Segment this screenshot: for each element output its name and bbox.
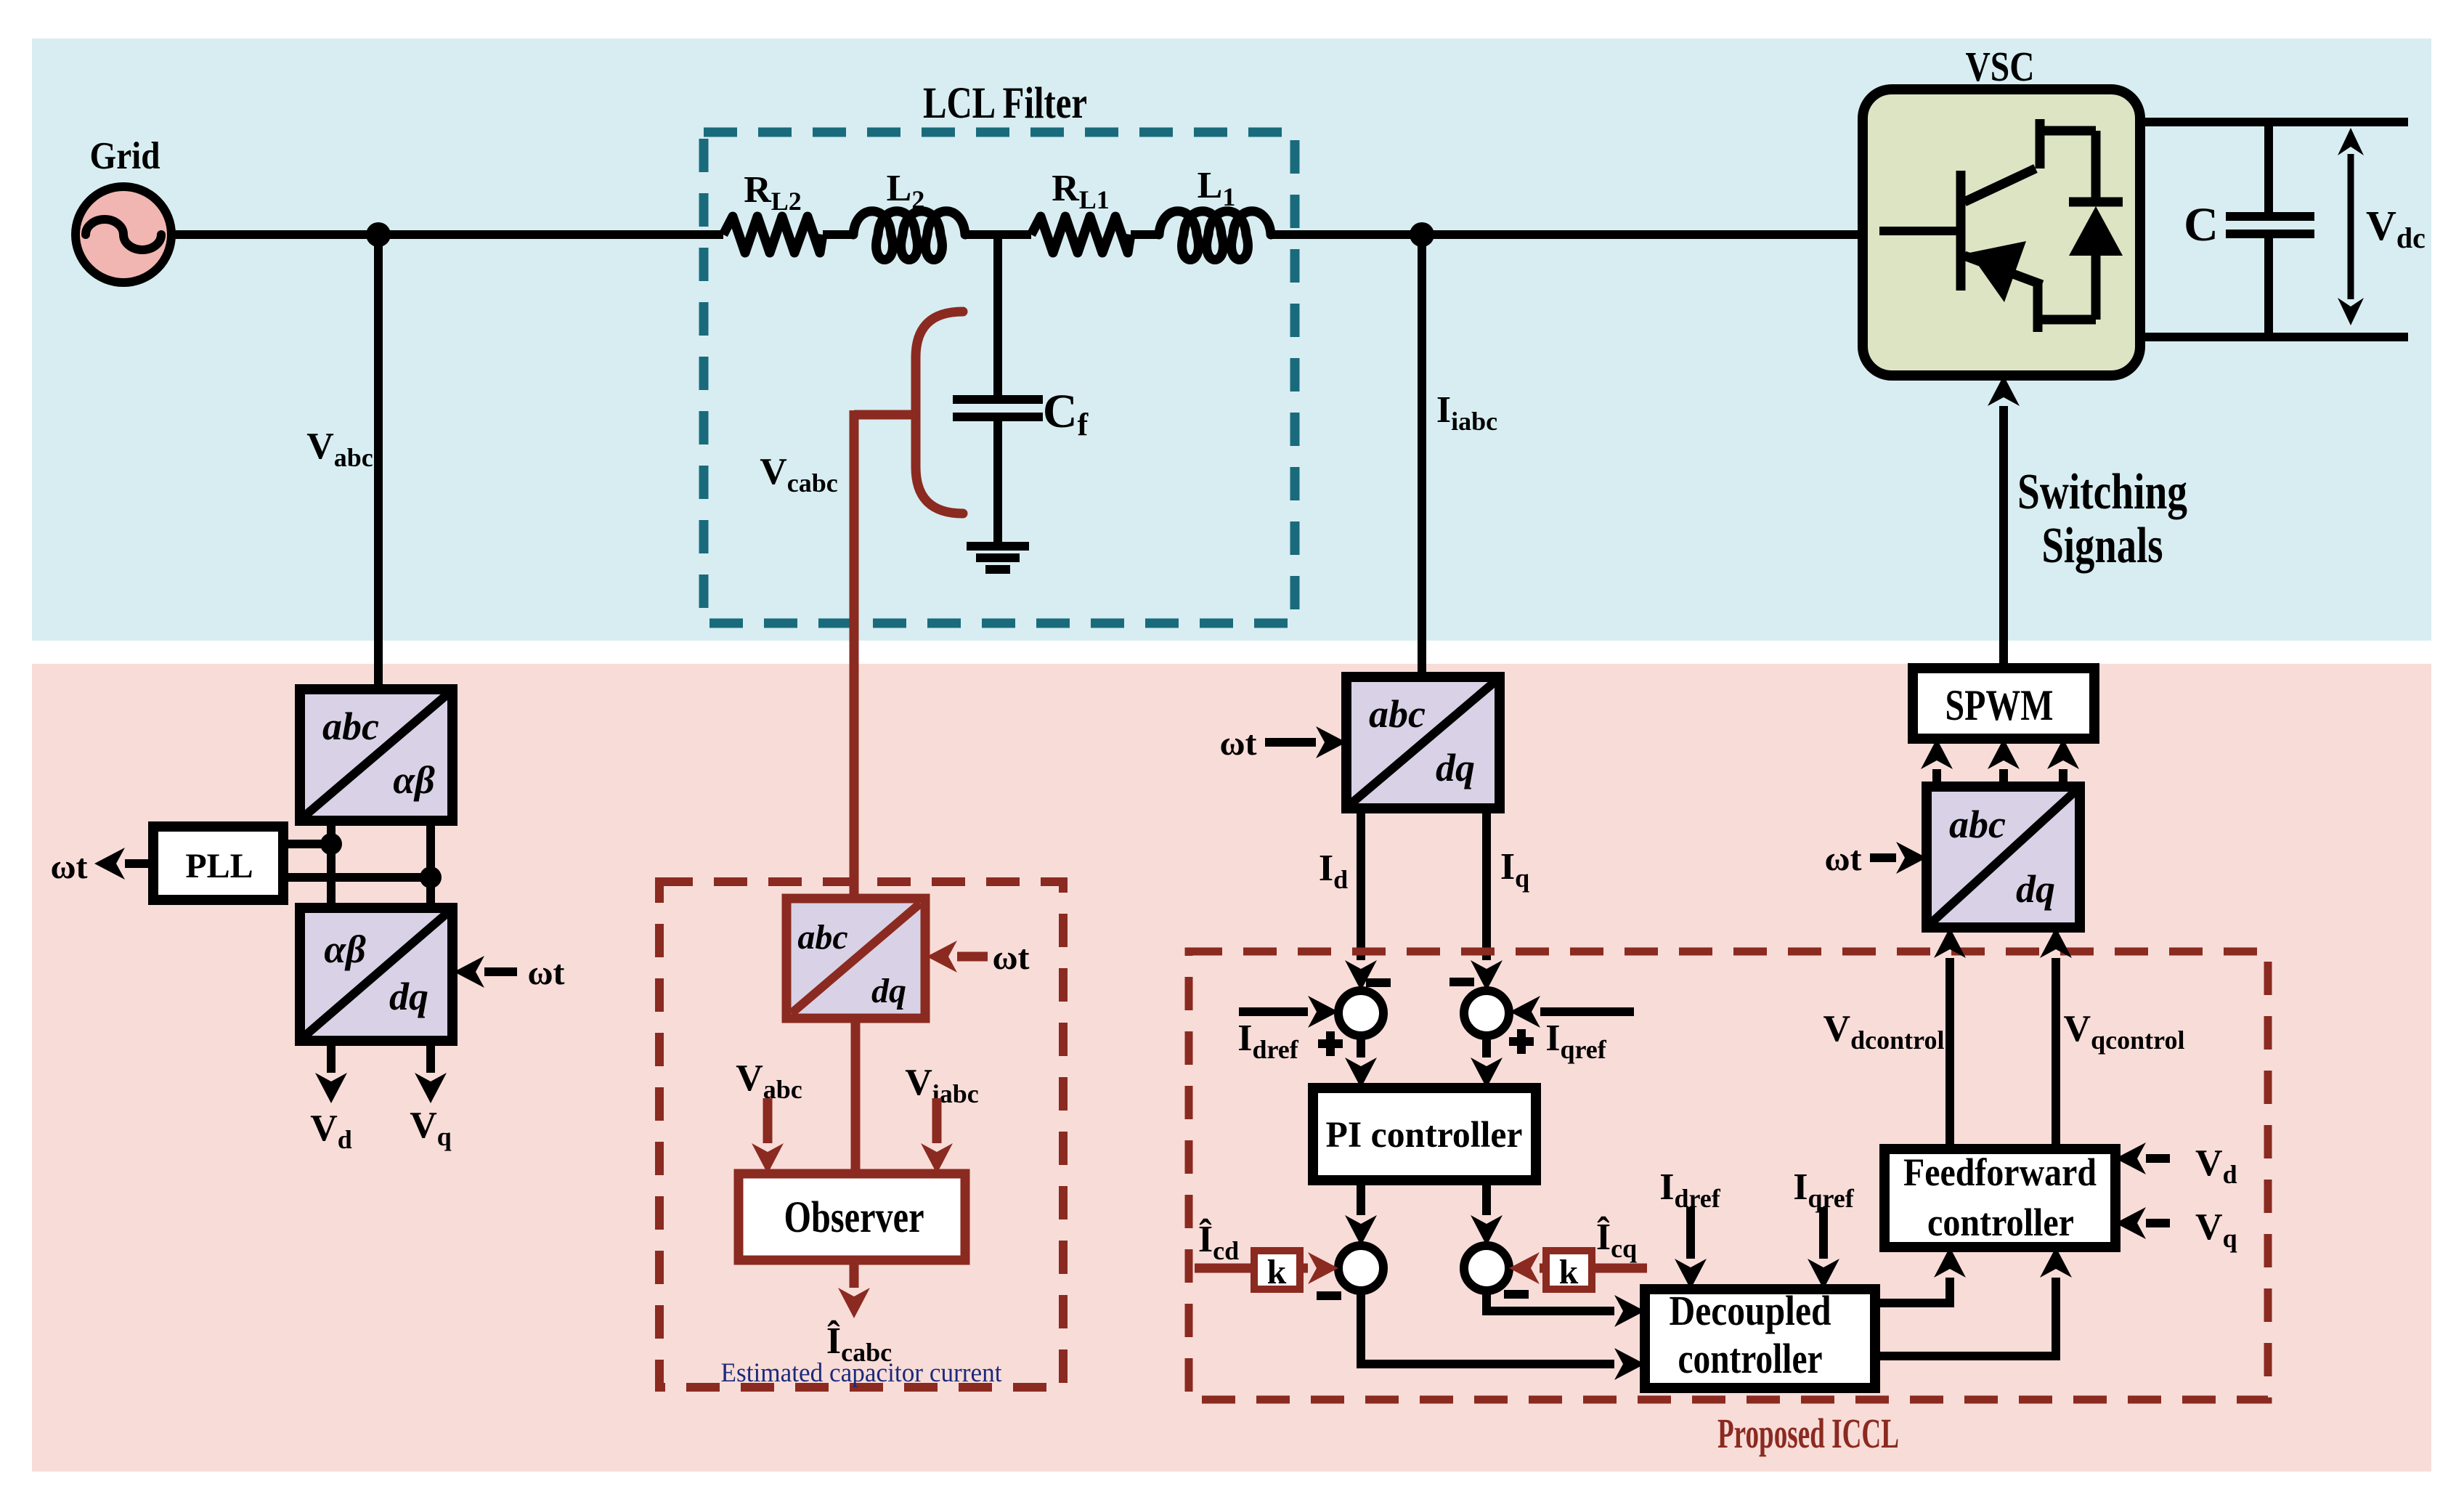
svg-text:abc: abc [1369, 692, 1426, 736]
svg-text:Grid: Grid [90, 135, 160, 177]
svg-text:abc: abc [1949, 803, 2006, 846]
svg-text:VSC: VSC [1966, 43, 2035, 90]
svg-text:ωt: ωt [1219, 724, 1256, 763]
svg-text:abc: abc [322, 705, 379, 748]
svg-text:k: k [1267, 1253, 1287, 1291]
svg-text:controller: controller [1927, 1201, 2074, 1244]
svg-text:Decoupled: Decoupled [1670, 1287, 1831, 1334]
svg-text:ωt: ωt [527, 954, 564, 992]
svg-text:C: C [2184, 198, 2219, 251]
svg-text:Proposed ICCL: Proposed ICCL [1717, 1410, 1899, 1457]
svg-text:dq: dq [389, 975, 428, 1018]
svg-text:abc: abc [797, 918, 847, 957]
svg-text:PI controller: PI controller [1326, 1115, 1523, 1156]
svg-text:dq: dq [871, 972, 906, 1010]
svg-text:Estimated capacitor current: Estimated capacitor current [721, 1358, 1003, 1388]
svg-text:LCL Filter: LCL Filter [923, 79, 1087, 128]
svg-text:k: k [1559, 1253, 1579, 1291]
svg-text:PLL: PLL [185, 847, 253, 885]
svg-text:dq: dq [1436, 746, 1475, 789]
svg-text:Feedforward: Feedforward [1903, 1150, 2097, 1194]
svg-text:ωt: ωt [1824, 840, 1861, 878]
svg-text:ωt: ωt [992, 938, 1029, 977]
svg-text:αβ: αβ [393, 758, 435, 802]
svg-text:Signals: Signals [2042, 518, 2163, 574]
svg-text:ωt: ωt [50, 848, 87, 886]
svg-text:αβ: αβ [324, 927, 366, 971]
svg-text:dq: dq [2016, 867, 2055, 911]
svg-text:Observer: Observer [784, 1193, 924, 1242]
svg-text:Switching: Switching [2017, 464, 2187, 520]
svg-text:SPWM: SPWM [1945, 681, 2054, 729]
svg-text:controller: controller [1678, 1335, 1823, 1382]
